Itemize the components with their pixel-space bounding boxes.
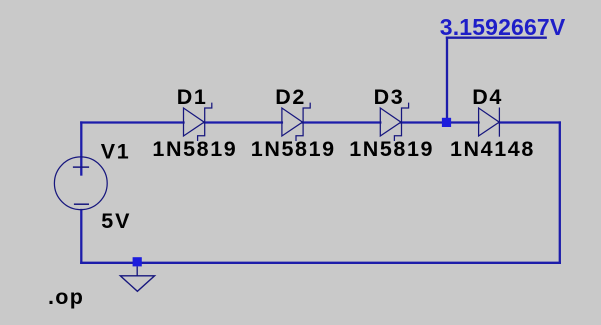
svg-text:1N5819: 1N5819 xyxy=(349,137,434,161)
svg-text:.op: .op xyxy=(48,285,84,309)
svg-text:D1: D1 xyxy=(177,85,208,109)
svg-text:3.1592667V: 3.1592667V xyxy=(440,14,566,40)
svg-text:1N5819: 1N5819 xyxy=(251,137,336,161)
svg-text:D3: D3 xyxy=(374,85,405,109)
svg-text:1N4148: 1N4148 xyxy=(450,137,535,161)
svg-text:1N5819: 1N5819 xyxy=(152,137,237,161)
svg-text:D2: D2 xyxy=(275,85,306,109)
svg-text:D4: D4 xyxy=(472,85,503,109)
svg-text:5V: 5V xyxy=(101,209,131,233)
svg-text:V1: V1 xyxy=(101,140,131,164)
